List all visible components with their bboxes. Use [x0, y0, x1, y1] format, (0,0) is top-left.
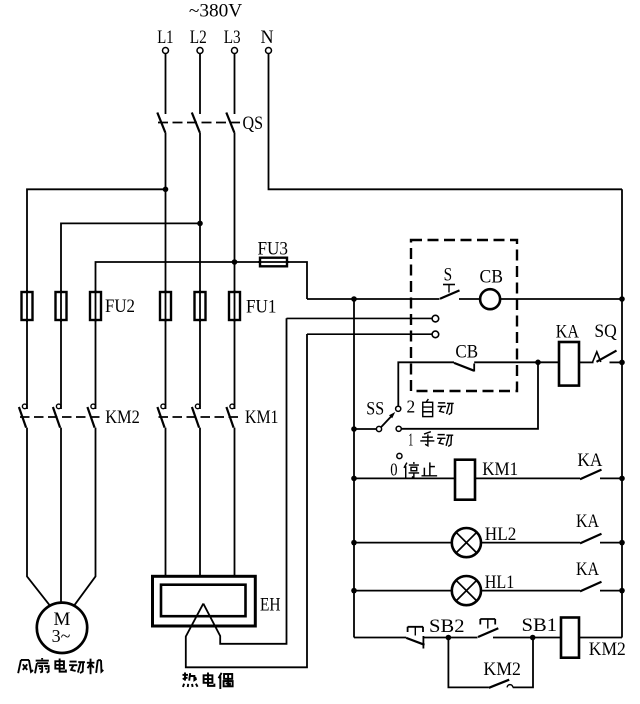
- svg-text:SB1: SB1: [522, 615, 558, 636]
- junction control left rail tap: [351, 296, 357, 302]
- contactor KM1 main contacts: [157, 404, 278, 428]
- junction right rail HL1 row: [619, 588, 625, 594]
- svg-text:SS: SS: [366, 398, 384, 419]
- label ~380V: [189, 1, 243, 22]
- wire L1 tap across and down: [27, 189, 166, 292]
- svg-text:FU3: FU3: [258, 239, 289, 260]
- junction L3 tap: [232, 259, 238, 265]
- svg-text:KM2: KM2: [105, 407, 140, 428]
- svg-text:KA: KA: [577, 450, 602, 471]
- heater EH: [153, 576, 281, 626]
- junction left rail HL1 row: [351, 588, 357, 594]
- junction left rail KM1 row: [351, 476, 357, 482]
- wire manual branch: [401, 362, 538, 429]
- svg-text:SQ: SQ: [594, 321, 617, 342]
- svg-text:2: 2: [407, 397, 416, 417]
- wire bottom row from left rail: [354, 637, 406, 639]
- wire left control rail: [353, 299, 355, 638]
- svg-text:1: 1: [408, 430, 413, 450]
- svg-text:SB2: SB2: [429, 616, 465, 637]
- svg-text:FU2: FU2: [105, 296, 135, 317]
- pushbutton SB2 (NC): [406, 616, 477, 649]
- controller CB lamp/actuator circle: [459, 267, 503, 310]
- contactor coil KM1: [354, 459, 580, 500]
- thermocouple element: [186, 318, 307, 667]
- node L3: [224, 27, 241, 54]
- svg-text:FU1: FU1: [246, 297, 277, 318]
- wire L3 QS to fuse FU1c: [234, 133, 236, 293]
- svg-text:KA: KA: [576, 559, 599, 580]
- contact KA (row 1): [577, 450, 622, 479]
- svg-text:KM1: KM1: [245, 407, 279, 428]
- switch S: [440, 265, 460, 299]
- junction CB row / manual branch: [535, 360, 541, 366]
- label 风扇电动机: [18, 658, 103, 674]
- wire L1 drop to QS: [165, 54, 167, 115]
- relay coil KA: [556, 322, 579, 386]
- svg-text:CB: CB: [455, 342, 478, 363]
- junction L2 tap: [197, 221, 203, 227]
- svg-text:EH: EH: [260, 595, 281, 616]
- contactor coil KM2: [561, 618, 626, 661]
- junction SB1 / latch: [530, 635, 536, 641]
- wire control top row: [307, 298, 440, 300]
- thermocouple input terminal 1: [287, 315, 439, 322]
- wire L2 drop to QS: [199, 54, 201, 115]
- svg-text:CB: CB: [480, 267, 504, 288]
- label 热电偶: [182, 672, 232, 689]
- wire KM1 to EH: [166, 428, 235, 577]
- svg-text:KM2: KM2: [589, 639, 626, 660]
- wire N drop and across to right rail: [269, 54, 623, 190]
- wire FU2 poles to KM2: [27, 320, 96, 409]
- node N: [261, 27, 274, 54]
- junction right rail SQ row: [619, 360, 625, 366]
- wire L1 QS to fuse FU1a: [165, 133, 167, 293]
- svg-text:N: N: [261, 27, 274, 48]
- junction right rail KM1 row: [619, 476, 625, 482]
- controller dashed box CB: [411, 240, 517, 391]
- junction left rail HL2 row: [351, 540, 357, 546]
- switch QS: [157, 113, 263, 135]
- wire FU1 poles to KM1: [166, 320, 235, 409]
- svg-text:QS: QS: [243, 113, 264, 134]
- svg-text:L3: L3: [224, 27, 241, 48]
- fuse FU3: [235, 239, 290, 267]
- contact KA (row 2): [576, 511, 622, 543]
- node L1: [157, 27, 173, 54]
- svg-text:3~: 3~: [52, 626, 71, 646]
- wire KM2 to motor: [27, 428, 96, 606]
- fuse FU2 (3 poles): [22, 290, 136, 322]
- wire L2 tap across and down: [61, 223, 200, 292]
- wire FU3 to control row: [287, 262, 307, 299]
- lamp HL2: [354, 524, 580, 557]
- svg-text:KA: KA: [576, 511, 599, 532]
- wire L2 QS to fuse FU1b: [199, 133, 201, 293]
- selector switch SS: [351, 398, 402, 458]
- wire L3 tap across and down: [96, 262, 235, 292]
- wire CB to right rail: [500, 298, 622, 300]
- junction SB2 / latch: [446, 635, 452, 641]
- wire L3 drop to QS: [234, 54, 236, 115]
- thermocouple input terminal 2: [307, 331, 439, 338]
- contactor KM2 main contacts: [19, 404, 140, 428]
- junction right rail top row: [619, 296, 625, 302]
- fuse FU1 (3 poles): [160, 290, 277, 322]
- label 1 手动: [408, 430, 453, 450]
- limit switch SQ: [579, 321, 622, 362]
- junction right rail HL2 row: [619, 540, 625, 546]
- svg-text:L2: L2: [190, 27, 207, 48]
- svg-text:L1: L1: [157, 27, 173, 48]
- svg-text:KM2: KM2: [483, 659, 521, 680]
- pushbutton SB1 (NO): [478, 615, 561, 638]
- svg-text:S: S: [444, 265, 453, 286]
- lamp HL1: [354, 572, 580, 605]
- motor M 3~: [37, 603, 87, 653]
- contact CB (controller output): [398, 342, 559, 407]
- svg-text:0: 0: [390, 459, 397, 479]
- junction L1 tap: [163, 187, 169, 193]
- node L2: [190, 27, 207, 54]
- label 0 停止: [390, 459, 437, 479]
- label 2 自动: [407, 397, 454, 417]
- wire right rail down: [621, 189, 623, 637]
- svg-text:~380V: ~380V: [189, 1, 243, 22]
- svg-text:KA: KA: [556, 322, 579, 343]
- svg-text:KM1: KM1: [482, 459, 518, 480]
- contact KM2 self-latch branch: [448, 638, 533, 688]
- contact KA (row 3): [576, 559, 622, 591]
